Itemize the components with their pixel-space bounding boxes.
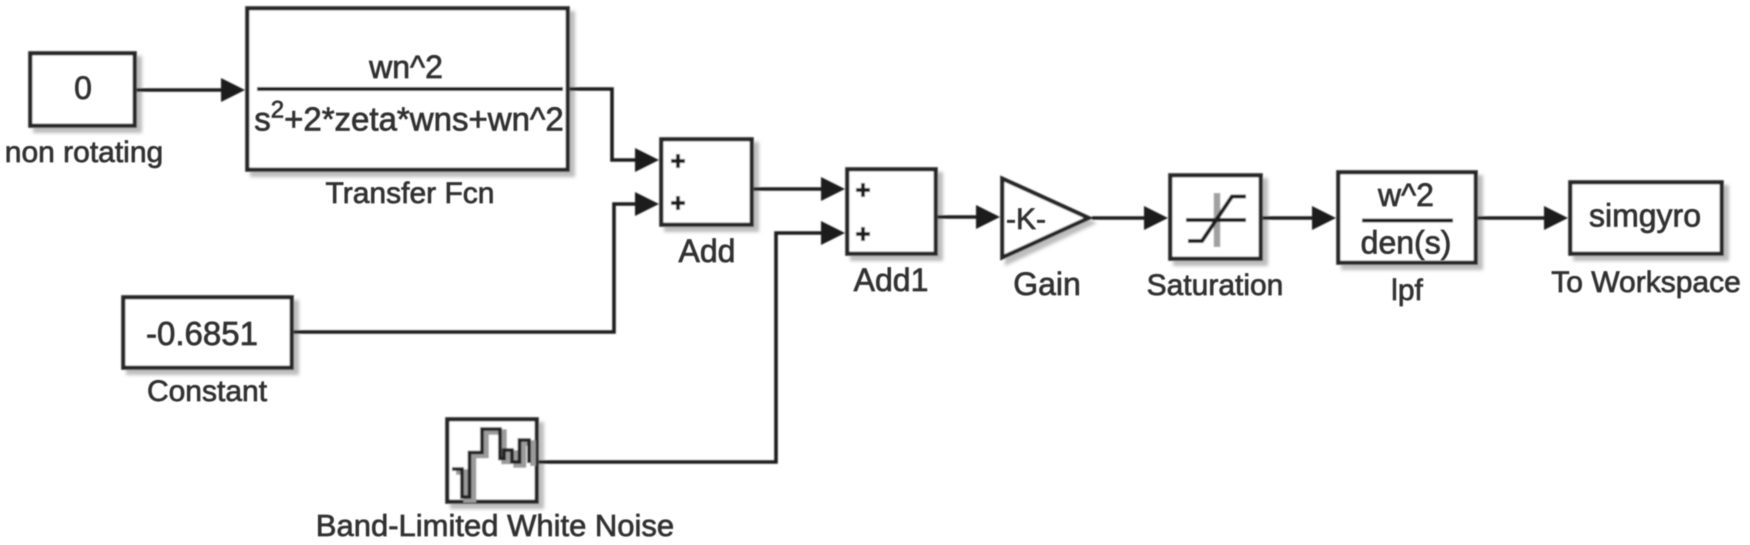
svg-text:0: 0 — [74, 70, 92, 106]
svg-text:den(s): den(s) — [1361, 225, 1452, 261]
svg-text:s2+2*zeta*wns+wn^2: s2+2*zeta*wns+wn^2 — [254, 97, 564, 138]
svg-text:Constant: Constant — [147, 375, 268, 408]
svg-text:Add: Add — [679, 233, 736, 269]
svg-text:Gain: Gain — [1013, 266, 1081, 302]
svg-text:Add1: Add1 — [854, 262, 929, 298]
svg-text:Band-Limited White Noise: Band-Limited White Noise — [316, 508, 674, 543]
svg-text:-0.6851: -0.6851 — [146, 315, 258, 352]
svg-text:To Workspace: To Workspace — [1551, 266, 1741, 299]
svg-text:w^2: w^2 — [1377, 177, 1434, 213]
svg-text:non rotating: non rotating — [5, 136, 163, 169]
svg-text:-K-: -K- — [1006, 203, 1046, 236]
svg-text:lpf: lpf — [1391, 274, 1423, 307]
svg-text:wn^2: wn^2 — [368, 49, 443, 85]
svg-text:Transfer Fcn: Transfer Fcn — [326, 177, 495, 210]
svg-text:Saturation: Saturation — [1147, 269, 1284, 302]
svg-text:simgyro: simgyro — [1589, 198, 1701, 234]
